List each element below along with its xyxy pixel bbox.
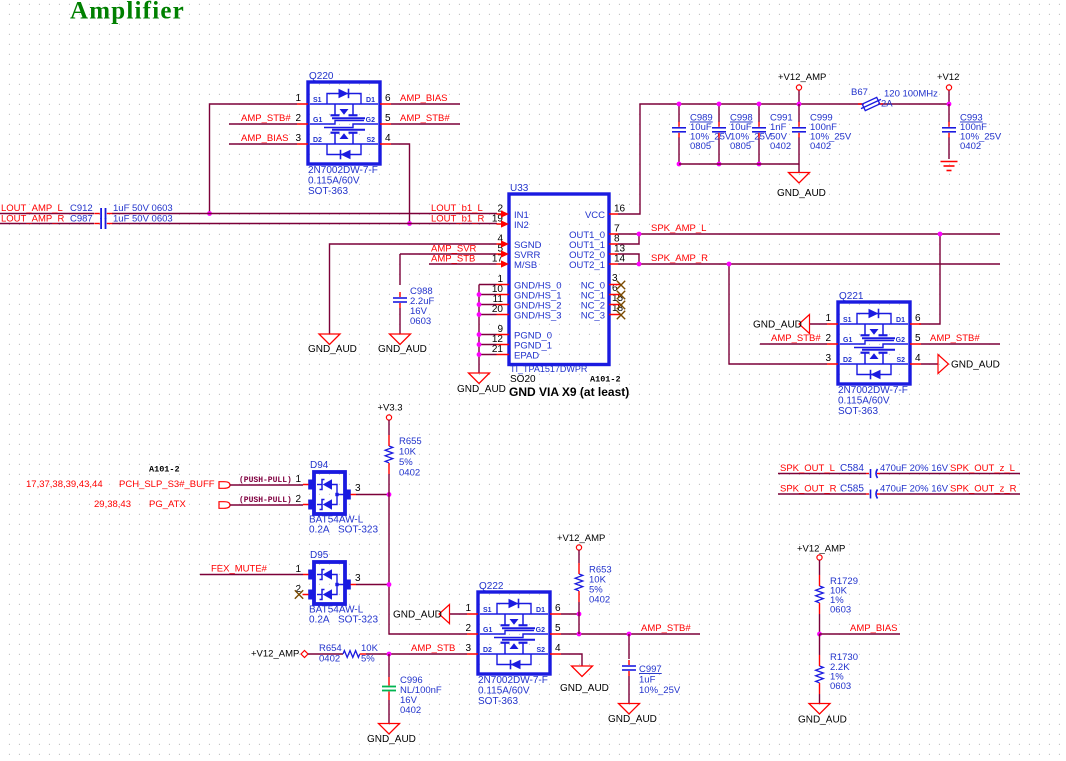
svg-text:AMP_STB#: AMP_STB# xyxy=(771,333,821,344)
svg-text:3: 3 xyxy=(465,643,471,654)
svg-text:C997: C997 xyxy=(639,664,662,675)
svg-text:S2: S2 xyxy=(366,137,375,144)
ground GND_AUD (C997) xyxy=(619,704,640,715)
wire net SPK_OUT_R xyxy=(778,493,1020,495)
wire U33 pin8 jog xyxy=(618,234,639,244)
value label C998 xyxy=(730,113,772,153)
wire AMP_STB# from Q222 pin5 xyxy=(561,633,700,635)
svg-text:6: 6 xyxy=(555,603,561,614)
transistor Q221 xyxy=(825,291,921,384)
wire gnd bus to U33 pin xyxy=(479,304,497,306)
ground arrow GND_AUD (Q221 pin4) xyxy=(938,355,949,374)
junction LOUT_AMP_L xyxy=(207,211,212,216)
wire AMP_STB# from Q220 pin5 xyxy=(391,123,460,125)
junction gnd bus xyxy=(477,332,482,337)
wire C993 to earth xyxy=(948,138,950,160)
value label Q220 xyxy=(308,165,378,197)
svg-text:IN2: IN2 xyxy=(514,220,529,231)
wire C991 to gnd bus xyxy=(758,138,760,165)
wire AMP_STB# from Q221 pin5 xyxy=(921,343,1000,345)
svg-text:GND VIA X9 (at least): GND VIA X9 (at least) xyxy=(509,385,629,399)
svg-text:6: 6 xyxy=(385,93,391,104)
wire Q222 pin6 to R653 node xyxy=(561,613,579,615)
wire C999 to gnd bus xyxy=(798,138,800,165)
svg-text:D2: D2 xyxy=(483,647,492,654)
wire R655 to node xyxy=(388,474,390,495)
svg-text:G1: G1 xyxy=(843,337,852,344)
wire FEX_MUTE# to D95 pin1 xyxy=(200,574,303,576)
svg-text:2A: 2A xyxy=(881,99,893,110)
wire AMP_STB to U33 pin17 xyxy=(429,263,497,265)
svg-text:1: 1 xyxy=(295,564,301,575)
wire C996 to ground xyxy=(388,700,390,724)
wire C997 to ground xyxy=(628,676,630,704)
svg-text:S1: S1 xyxy=(313,97,322,104)
wire net LOUT_AMP_R xyxy=(0,223,497,225)
svg-text:29,38,43: 29,38,43 xyxy=(94,499,131,510)
svg-text:C584: C584 xyxy=(840,463,864,474)
resistor R653 xyxy=(575,563,583,602)
svg-text:470uF 20% 16V: 470uF 20% 16V xyxy=(880,484,949,495)
svg-text:GND_AUD: GND_AUD xyxy=(777,188,826,199)
svg-text:GND_AUD: GND_AUD xyxy=(753,320,802,331)
power +V12_AMP (R1729) xyxy=(817,555,822,560)
svg-text:0.2A: 0.2A xyxy=(309,615,330,626)
wire U33 ground bus xyxy=(478,285,480,374)
value label R1729 xyxy=(830,576,858,616)
svg-text:0603: 0603 xyxy=(410,316,431,327)
svg-text:SOT-363: SOT-363 xyxy=(478,696,518,707)
svg-text:10K: 10K xyxy=(399,447,417,458)
svg-text:5%: 5% xyxy=(361,654,375,665)
svg-text:14: 14 xyxy=(614,254,626,265)
wire net AMP_BIAS xyxy=(820,633,901,635)
power +V3.3 xyxy=(386,415,391,420)
wire AMP_SVR down to C988 xyxy=(399,254,401,285)
wire PG_ATX to D94 pin2 xyxy=(230,504,303,506)
no-connect X on U33 NC pin xyxy=(617,311,625,319)
value label C999 xyxy=(810,113,852,153)
wire cap ground bus xyxy=(679,163,799,165)
wire AMP_STB# to C997 xyxy=(628,634,630,659)
wire gnd bus to U33 pin xyxy=(479,334,497,336)
svg-text:D1: D1 xyxy=(366,97,375,104)
capacitor C912 xyxy=(94,208,112,219)
svg-text:5: 5 xyxy=(555,623,561,634)
svg-text:+V12_AMP: +V12_AMP xyxy=(557,533,605,544)
wire +V12_AMP to R653 xyxy=(578,550,580,563)
svg-text:5: 5 xyxy=(385,113,391,124)
svg-text:S1: S1 xyxy=(483,607,492,614)
svg-text:0.115A/60V: 0.115A/60V xyxy=(838,396,890,407)
svg-text:470uF 20% 16V: 470uF 20% 16V xyxy=(880,463,949,474)
value label C996 xyxy=(400,675,442,716)
diode D94 xyxy=(308,460,351,514)
no-connect X on U33 NC pin xyxy=(617,291,625,299)
svg-text:0402: 0402 xyxy=(960,141,981,152)
label C584 value xyxy=(840,463,949,474)
svg-text:17,37,38,39,43,44: 17,37,38,39,43,44 xyxy=(26,479,103,490)
svg-text:SOT-363: SOT-363 xyxy=(838,406,878,417)
wire AMP_STB to Q222 pin3 xyxy=(366,653,467,655)
transistor Q222 xyxy=(465,581,561,674)
label C585 value xyxy=(840,484,949,495)
value label R653 xyxy=(589,565,612,606)
svg-text:+V12_AMP: +V12_AMP xyxy=(251,649,299,660)
svg-text:GND_AUD: GND_AUD xyxy=(798,715,847,726)
capacitor C999 xyxy=(792,122,806,138)
pin stubs D95 xyxy=(303,575,357,595)
junction rail +V12 xyxy=(947,102,952,107)
power +V12_AMP diamond xyxy=(301,651,308,658)
svg-text:+V12_AMP: +V12_AMP xyxy=(778,72,826,83)
svg-text:R655: R655 xyxy=(399,436,422,447)
svg-text:AMP_BIAS: AMP_BIAS xyxy=(400,93,448,104)
svg-text:4: 4 xyxy=(385,133,391,144)
svg-text:3: 3 xyxy=(295,133,301,144)
ground GND_AUD (U33) xyxy=(469,373,490,384)
pin stubs D94 xyxy=(303,485,356,505)
svg-text:SPK_OUT_L: SPK_OUT_L xyxy=(780,463,835,474)
svg-text:5: 5 xyxy=(915,333,921,344)
ground arrow GND_AUD (Q221 pin1) xyxy=(799,315,810,334)
wire R1729 to AMP_BIAS node xyxy=(819,614,821,634)
svg-text:AMP_STB#: AMP_STB# xyxy=(641,623,691,634)
ferrite bead B67 xyxy=(858,96,884,112)
svg-text:C585: C585 xyxy=(840,484,864,495)
svg-text:A101-2: A101-2 xyxy=(149,465,180,475)
svg-text:GND_AUD: GND_AUD xyxy=(457,384,506,395)
wire Q222 pin4 to ground xyxy=(561,654,582,666)
diode D95 xyxy=(308,550,351,604)
wire C989 to gnd bus xyxy=(678,138,680,165)
svg-text:GND_AUD: GND_AUD xyxy=(308,344,357,355)
wire +V3.3 to R655 xyxy=(388,420,390,435)
label C987 value xyxy=(70,214,173,225)
svg-text:+V12_AMP: +V12_AMP xyxy=(797,544,845,555)
wire rail after bead B67 xyxy=(880,103,949,105)
svg-text:0805: 0805 xyxy=(730,141,751,152)
wire +V12_AMP to R654 xyxy=(308,653,343,655)
junction SPK_AMP_R xyxy=(637,262,642,267)
svg-text:3: 3 xyxy=(355,573,361,584)
wire Q220 pin4 to LOUT_AMP_R xyxy=(391,144,410,224)
pin numbers D94 xyxy=(295,474,361,505)
junction SPK_AMP_R drop xyxy=(727,262,732,267)
wire +V12_AMP to R1729 xyxy=(819,560,821,575)
svg-text:+V12: +V12 xyxy=(937,72,959,83)
svg-text:0603: 0603 xyxy=(830,605,851,616)
wire R653 to AMP_STB# node xyxy=(578,602,580,634)
wire Q221 pin1 to GND_AUD arrow xyxy=(810,323,827,325)
svg-text:(PUSH-PULL): (PUSH-PULL) xyxy=(239,476,292,485)
wire node to D95 pin3 node xyxy=(388,495,390,585)
junction rail xyxy=(757,102,762,107)
svg-text:OUT2_1: OUT2_1 xyxy=(569,260,605,271)
svg-text:1uF: 1uF xyxy=(639,675,656,686)
junction AMP_BIAS xyxy=(817,632,822,637)
svg-text:AMP_BIAS: AMP_BIAS xyxy=(850,623,898,634)
svg-text:D1: D1 xyxy=(896,317,905,324)
svg-text:A101-2: A101-2 xyxy=(590,375,621,385)
value label B67 xyxy=(851,87,938,110)
svg-text:M/SB: M/SB xyxy=(514,260,537,271)
svg-text:0402: 0402 xyxy=(400,705,421,716)
wire Q220 pin1 to LOUT_AMP_L xyxy=(210,104,298,214)
wire C998 to gnd bus xyxy=(718,138,720,165)
svg-text:SOT-323: SOT-323 xyxy=(338,525,378,536)
junction SPK_AMP_L drop xyxy=(938,232,943,237)
svg-text:SOT-323: SOT-323 xyxy=(338,615,378,626)
wire AMP_SVR to U33 pin5 xyxy=(400,253,497,255)
no-connect X on U33 NC pin xyxy=(617,281,625,289)
wire node down to Q222 pin2 xyxy=(389,585,467,635)
ground GND_AUD (C988) xyxy=(390,334,411,345)
svg-text:2N7002DW-7-F: 2N7002DW-7-F xyxy=(308,165,378,176)
svg-text:SPK_OUT_z_R: SPK_OUT_z_R xyxy=(950,484,1017,495)
svg-text:0805: 0805 xyxy=(690,141,711,152)
junction gnd bus xyxy=(477,292,482,297)
wire gnd bus to U33 pin xyxy=(479,294,497,296)
wire rail to C989 xyxy=(678,104,680,122)
svg-text:16: 16 xyxy=(614,204,626,215)
svg-text:6: 6 xyxy=(915,313,921,324)
svg-text:GND_AUD: GND_AUD xyxy=(560,683,609,694)
junction gnd bus xyxy=(477,352,482,357)
junction gnd bus xyxy=(477,312,482,317)
svg-text:10K: 10K xyxy=(361,643,379,654)
svg-text:0.115A/60V: 0.115A/60V xyxy=(478,686,530,697)
junction gnd bus xyxy=(477,302,482,307)
value label C997 xyxy=(639,664,681,696)
connector pin bubble xyxy=(219,482,230,489)
capacitor C997 xyxy=(622,660,636,676)
wire gnd bus to U33 pin xyxy=(479,314,497,316)
svg-text:VCC: VCC xyxy=(585,210,605,221)
svg-text:GND_AUD: GND_AUD xyxy=(951,360,1000,371)
svg-text:D95: D95 xyxy=(310,550,329,561)
value label D95 xyxy=(309,605,378,626)
svg-text:0402: 0402 xyxy=(770,141,791,152)
capacitor C989 xyxy=(672,122,686,138)
svg-text:GND_AUD: GND_AUD xyxy=(393,610,442,621)
svg-text:G1: G1 xyxy=(313,117,322,124)
svg-text:AMP_STB#: AMP_STB# xyxy=(400,113,450,124)
wire gnd bus to U33 pin xyxy=(479,354,497,356)
capacitor C996 (NL, green) xyxy=(382,677,396,700)
wire +V12 to C993 xyxy=(948,104,950,122)
wire gnd bus to ground xyxy=(798,164,800,173)
junction R653 node xyxy=(577,612,582,617)
svg-text:PCH_SLP_S3#_BUFF: PCH_SLP_S3#_BUFF xyxy=(119,479,215,490)
wire AMP_BIAS from Q220 pin6 xyxy=(391,103,460,105)
ground GND_AUD (Q222 pin4) xyxy=(572,666,593,677)
svg-text:4: 4 xyxy=(555,643,561,654)
svg-text:3: 3 xyxy=(825,353,831,364)
wire +V12 stem xyxy=(948,90,950,104)
wire net SPK_AMP_L xyxy=(618,233,1000,235)
svg-text:GND/HS_3: GND/HS_3 xyxy=(514,311,562,322)
junction AMP_STB# C997 xyxy=(627,632,632,637)
value label R654 xyxy=(319,643,379,665)
power +V12 xyxy=(946,85,951,90)
svg-text:21: 21 xyxy=(492,344,504,355)
ground GND_AUD (C996) xyxy=(379,724,400,735)
svg-text:D2: D2 xyxy=(313,137,322,144)
wire D94 pin3 to R655 node xyxy=(356,494,389,496)
resistor R1729 xyxy=(816,575,824,614)
wire SPK_AMP_L to Q221 pin6 xyxy=(919,234,940,324)
capacitor C987 xyxy=(94,218,112,229)
svg-text:S1: S1 xyxy=(843,317,852,324)
svg-text:G2: G2 xyxy=(366,117,375,124)
junction gnd bus xyxy=(677,162,682,167)
svg-text:AMP_STB: AMP_STB xyxy=(411,643,455,654)
svg-text:TI_TPA1517DWPR: TI_TPA1517DWPR xyxy=(510,364,588,374)
svg-text:1uF 50V 0603: 1uF 50V 0603 xyxy=(113,214,173,225)
svg-text:+V3.3: +V3.3 xyxy=(378,403,403,414)
svg-text:LOUT_b1_L: LOUT_b1_L xyxy=(431,203,483,214)
label C912 value xyxy=(70,203,173,214)
svg-text:LOUT_b1_R: LOUT_b1_R xyxy=(431,214,484,225)
svg-text:G2: G2 xyxy=(536,627,545,634)
ground GND_AUD (caps) xyxy=(789,173,810,184)
ground arrow GND_AUD (Q222 pin1) xyxy=(439,605,450,624)
svg-text:FEX_MUTE#: FEX_MUTE# xyxy=(211,564,268,575)
capacitor C584 xyxy=(866,469,880,478)
svg-text:AMP_BIAS: AMP_BIAS xyxy=(241,133,289,144)
power +V12_AMP (R653) xyxy=(576,545,581,550)
svg-text:0402: 0402 xyxy=(319,654,340,665)
capacitor C993 xyxy=(942,122,956,138)
ground GND_AUD (R1730) xyxy=(809,704,830,715)
value label C989 xyxy=(690,113,732,153)
value label U33 xyxy=(510,364,588,385)
value label C988 xyxy=(410,286,434,327)
resistor R1730 xyxy=(816,655,824,694)
svg-text:1: 1 xyxy=(825,313,831,324)
wire AMP_STB# to Q221 pin2 xyxy=(760,343,827,345)
svg-text:SPK_OUT_R: SPK_OUT_R xyxy=(780,484,837,495)
svg-text:LOUT_AMP_R: LOUT_AMP_R xyxy=(1,214,64,225)
wire U33 pin13 jog xyxy=(618,254,639,264)
svg-text:2N7002DW-7-F: 2N7002DW-7-F xyxy=(478,675,548,686)
wire gnd bus to U33 pin xyxy=(479,284,497,286)
svg-text:PG_ATX: PG_ATX xyxy=(149,499,186,510)
svg-text:20: 20 xyxy=(492,304,504,315)
svg-text:4: 4 xyxy=(915,353,921,364)
junction rail xyxy=(717,102,722,107)
value label R1730 xyxy=(830,652,858,692)
wire rail to C991 xyxy=(758,104,760,122)
svg-text:SO20: SO20 xyxy=(510,374,536,385)
svg-text:AMP_STB#: AMP_STB# xyxy=(930,333,980,344)
junction rail xyxy=(677,102,682,107)
svg-text:1: 1 xyxy=(295,93,301,104)
svg-text:0402: 0402 xyxy=(589,595,610,606)
svg-text:1: 1 xyxy=(295,474,301,485)
value label D94 xyxy=(309,515,378,536)
op-amp U33 TPA1517 xyxy=(492,183,626,365)
value label Q221 xyxy=(838,385,908,417)
svg-text:5%: 5% xyxy=(399,457,413,468)
wire net SPK_OUT_L xyxy=(778,473,1020,475)
svg-text:2N7002DW-7-F: 2N7002DW-7-F xyxy=(838,385,908,396)
svg-text:D1: D1 xyxy=(536,607,545,614)
junction SPK_AMP_L xyxy=(637,232,642,237)
ground earth symbol xyxy=(941,162,958,171)
svg-text:0.115A/60V: 0.115A/60V xyxy=(308,176,360,187)
svg-text:0402: 0402 xyxy=(810,141,831,152)
svg-text:NC_3: NC_3 xyxy=(581,311,605,322)
wire +V12_AMP stem xyxy=(798,90,800,104)
junction gnd bus xyxy=(477,342,482,347)
svg-text:SOT-363: SOT-363 xyxy=(308,186,348,197)
svg-text:Amplifier: Amplifier xyxy=(70,0,185,25)
svg-text:R654: R654 xyxy=(319,643,342,654)
transistor Q220 xyxy=(295,71,391,164)
svg-text:3: 3 xyxy=(355,483,361,494)
junction AMP_STB# R653 xyxy=(577,632,582,637)
resistor R654 xyxy=(343,651,366,658)
svg-text:GND_AUD: GND_AUD xyxy=(378,344,427,355)
wire net SPK_AMP_R xyxy=(618,263,1000,265)
no-connect X on D95 pin2 xyxy=(295,590,303,598)
connector pin bubble xyxy=(219,502,230,509)
svg-text:EPAD: EPAD xyxy=(514,351,539,362)
ground GND_AUD (SGND) xyxy=(319,334,340,345)
junction AMP_STB C996 xyxy=(387,652,392,657)
wire gnd bus to U33 pin xyxy=(479,344,497,346)
svg-text:D94: D94 xyxy=(310,460,329,471)
wire node to R1730 xyxy=(819,634,821,655)
wire rail to C998 xyxy=(718,104,720,122)
junction gnd bus xyxy=(757,162,762,167)
svg-text:GND_AUD: GND_AUD xyxy=(367,734,416,745)
svg-text:G1: G1 xyxy=(483,627,492,634)
svg-text:0603: 0603 xyxy=(830,681,851,692)
wire VCC to +V12_AMP rail xyxy=(618,104,862,214)
junction D94 pin3 node xyxy=(387,492,392,497)
svg-text:0.2A: 0.2A xyxy=(309,525,330,536)
capacitor C998 xyxy=(712,122,726,138)
svg-text:1: 1 xyxy=(465,603,471,614)
wire U33 pin4 SGND to ground xyxy=(330,244,497,334)
svg-text:2: 2 xyxy=(295,494,301,505)
svg-text:AMP_STB: AMP_STB xyxy=(431,254,475,265)
junction LOUT_AMP_R xyxy=(407,221,412,226)
svg-text:S2: S2 xyxy=(896,357,905,364)
wire Q222 pin1 to GND_AUD arrow xyxy=(450,613,467,615)
svg-text:G2: G2 xyxy=(896,337,905,344)
junction D95 pin3 node xyxy=(387,582,392,587)
wire Q221 pin4 to GND_AUD arrow xyxy=(921,363,938,365)
wire PCH_SLP_S3#_BUFF to D94 pin1 xyxy=(230,484,303,486)
wire net LOUT_AMP_L xyxy=(0,213,497,215)
svg-text:GND_AUD: GND_AUD xyxy=(608,714,657,725)
power +V12_AMP xyxy=(796,85,801,90)
svg-text:D2: D2 xyxy=(843,357,852,364)
wire node to C996 xyxy=(388,654,390,677)
no-connect X on U33 NC pin xyxy=(617,301,625,309)
value label R655 xyxy=(399,436,422,479)
svg-text:LOUT_AMP_L: LOUT_AMP_L xyxy=(1,203,63,214)
junction rail +V12_AMP xyxy=(797,102,802,107)
svg-text:B67: B67 xyxy=(851,87,868,98)
junction gnd bus xyxy=(717,162,722,167)
svg-text:(PUSH-PULL): (PUSH-PULL) xyxy=(239,496,292,505)
svg-text:S2: S2 xyxy=(536,647,545,654)
